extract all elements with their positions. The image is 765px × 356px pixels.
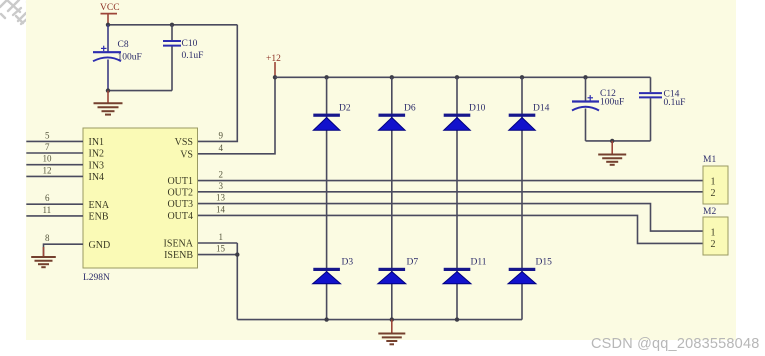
op-amp U1 : L298N IC body — [83, 128, 198, 268]
svg-text:D11: D11 — [471, 258, 487, 268]
svg-text:M1: M1 — [703, 155, 716, 165]
wire ISEN vertical to bottom rail — [236, 243, 238, 320]
node rail D10 — [455, 75, 459, 79]
svg-text:D10: D10 — [469, 104, 486, 114]
capacitor C8 — [93, 46, 121, 62]
svg-text:OUT3: OUT3 — [167, 199, 193, 210]
node C12 ground junction — [610, 139, 614, 143]
svg-text:OUT1: OUT1 — [167, 176, 193, 187]
wire VCC top rail — [108, 24, 237, 26]
wire GND pin — [44, 244, 84, 256]
node VCC-C10 junction — [170, 23, 174, 27]
svg-text:0.1uF: 0.1uF — [664, 98, 686, 108]
diode D7 — [378, 268, 406, 284]
svg-text:2: 2 — [711, 239, 716, 250]
node bottom rail D3 — [324, 317, 328, 321]
ground below C12 — [598, 141, 626, 165]
svg-text:7: 7 — [45, 142, 50, 152]
node +12 rail junction — [273, 75, 277, 79]
diode D10 — [444, 114, 471, 131]
svg-text:1: 1 — [711, 177, 716, 188]
svg-text:GND: GND — [89, 240, 111, 251]
svg-text:IN3: IN3 — [89, 160, 105, 171]
diode D3 — [313, 268, 341, 284]
svg-text:IN4: IN4 — [89, 172, 105, 183]
svg-text:5: 5 — [45, 130, 50, 140]
svg-text:D2: D2 — [339, 104, 351, 114]
svg-text:IN1: IN1 — [89, 137, 105, 148]
diode D6 — [379, 114, 406, 131]
wire diode column 4 — [521, 77, 523, 319]
svg-text:0.1uF: 0.1uF — [182, 51, 204, 61]
svg-text:15: 15 — [216, 244, 226, 254]
node bottom rail D7 — [390, 317, 394, 321]
wire C12 top — [585, 77, 587, 100]
node rail D6 — [390, 75, 394, 79]
svg-text:+12: +12 — [266, 54, 281, 64]
wire ISENA — [198, 242, 238, 244]
wire OUT3 to M2 pin1 — [198, 204, 704, 232]
power symbol +12 — [266, 54, 281, 77]
svg-text:C10: C10 — [182, 39, 198, 49]
capacitor C10 — [163, 41, 181, 46]
wire IN3 — [26, 164, 83, 166]
svg-text:VS: VS — [180, 149, 193, 160]
wire VS net to +12 — [198, 77, 276, 154]
wire IN2 — [26, 152, 83, 154]
svg-text:ISENA: ISENA — [164, 239, 194, 250]
ground bottom rail — [378, 320, 405, 345]
ground at GND pin — [31, 247, 56, 267]
node C8 bottom junction — [106, 88, 110, 92]
diode D11 — [443, 268, 471, 284]
wire C14 top — [650, 77, 652, 92]
svg-text:8: 8 — [45, 233, 50, 243]
svg-text:100uF: 100uF — [600, 98, 624, 108]
capacitor C14 — [639, 93, 662, 97]
node VCC-C8 junction — [106, 23, 110, 27]
svg-text:ENA: ENA — [89, 200, 110, 211]
svg-text:13: 13 — [216, 193, 226, 203]
svg-text:2: 2 — [711, 188, 716, 199]
wire diode column 3 — [456, 77, 458, 319]
wire IN1 — [26, 140, 83, 142]
svg-text:1: 1 — [219, 232, 224, 242]
wire ISENB — [198, 254, 238, 256]
wire C8-C10 bottom link — [108, 90, 172, 92]
svg-text:9: 9 — [219, 130, 224, 140]
capacitor C12 — [572, 95, 599, 110]
svg-text:4: 4 — [219, 143, 224, 153]
wire OUT2 to M1 pin2 — [198, 191, 704, 193]
svg-text:14: 14 — [216, 204, 226, 214]
diode D14 — [509, 114, 536, 131]
svg-text:100uF: 100uF — [118, 53, 142, 63]
ground below C8 — [94, 91, 123, 115]
svg-text:OUT4: OUT4 — [167, 211, 193, 222]
svg-text:C8: C8 — [118, 40, 129, 50]
svg-text:VSS: VSS — [175, 137, 193, 148]
power symbol VCC — [100, 3, 120, 25]
svg-text:2: 2 — [219, 170, 224, 180]
svg-text:VCC: VCC — [100, 3, 120, 13]
diode D2 — [313, 114, 340, 131]
svg-text:OUT2: OUT2 — [167, 187, 193, 198]
connector M1 — [703, 155, 728, 204]
wire bottom rail — [237, 319, 522, 321]
wire diode column 1 — [326, 77, 328, 319]
svg-text:D7: D7 — [407, 258, 419, 268]
watermark top-left glyphs — [0, 0, 31, 24]
node rail D14 — [520, 75, 524, 79]
wire +12 top rail — [275, 76, 651, 78]
svg-text:CSDN @qq_2083558048: CSDN @qq_2083558048 — [591, 336, 759, 352]
svg-text:D14: D14 — [533, 104, 550, 114]
svg-text:IN2: IN2 — [89, 149, 105, 160]
wire C14 bottom — [650, 98, 652, 141]
svg-text:6: 6 — [45, 193, 50, 203]
wire C10 top — [171, 25, 173, 40]
node rail D2 — [324, 75, 328, 79]
wire C12-C14 bottom link — [586, 140, 651, 142]
svg-text:ISENB: ISENB — [164, 250, 193, 261]
svg-text:12: 12 — [43, 165, 52, 175]
wire C8 bottom — [107, 60, 109, 91]
wire C10 bottom — [171, 47, 173, 91]
svg-text:11: 11 — [43, 205, 52, 215]
wire OUT1 to M1 pin1 — [198, 180, 704, 182]
wire diode column 2 — [391, 77, 393, 319]
wire ENB — [26, 215, 83, 217]
wire IN4 — [26, 175, 83, 177]
svg-text:1: 1 — [711, 227, 716, 238]
node rail C12 — [583, 75, 587, 79]
svg-text:M2: M2 — [703, 207, 716, 217]
wire VSS net vertical — [198, 25, 238, 142]
svg-text:D15: D15 — [536, 258, 553, 268]
node bottom rail D11 — [455, 317, 459, 321]
svg-text:L298N: L298N — [83, 273, 110, 283]
svg-text:ENB: ENB — [89, 212, 109, 223]
svg-text:D3: D3 — [342, 258, 354, 268]
diode D15 — [508, 268, 536, 284]
svg-text:10: 10 — [43, 154, 53, 164]
wire C8 top — [107, 25, 109, 52]
svg-text:D6: D6 — [404, 104, 416, 114]
node ISENB junction — [235, 252, 239, 256]
wire ENA — [26, 203, 83, 205]
connector M2 — [703, 207, 728, 255]
wire C12 bottom — [585, 109, 587, 141]
svg-text:3: 3 — [219, 181, 224, 191]
wire OUT4 to M2 pin2 — [198, 215, 704, 243]
